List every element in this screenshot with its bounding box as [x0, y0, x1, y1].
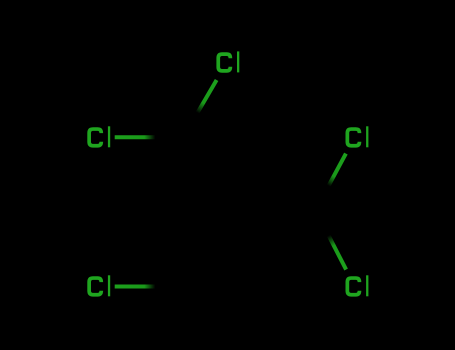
bond lower-left Cl to C4: [115, 285, 183, 289]
atom label Cl lower-right: [347, 275, 368, 296]
atom label Cl lower-left: [89, 275, 110, 296]
bond top Cl to C1: [183, 80, 217, 138]
atom label Cl upper-right: [347, 126, 368, 147]
bond upper-left Cl to C1: [115, 135, 183, 139]
atom label Cl top: [218, 51, 239, 72]
bond upper-right Cl to C3: [316, 154, 346, 210]
atom label Cl upper-left: [89, 126, 110, 147]
bond lower-right Cl to C3: [316, 210, 347, 270]
